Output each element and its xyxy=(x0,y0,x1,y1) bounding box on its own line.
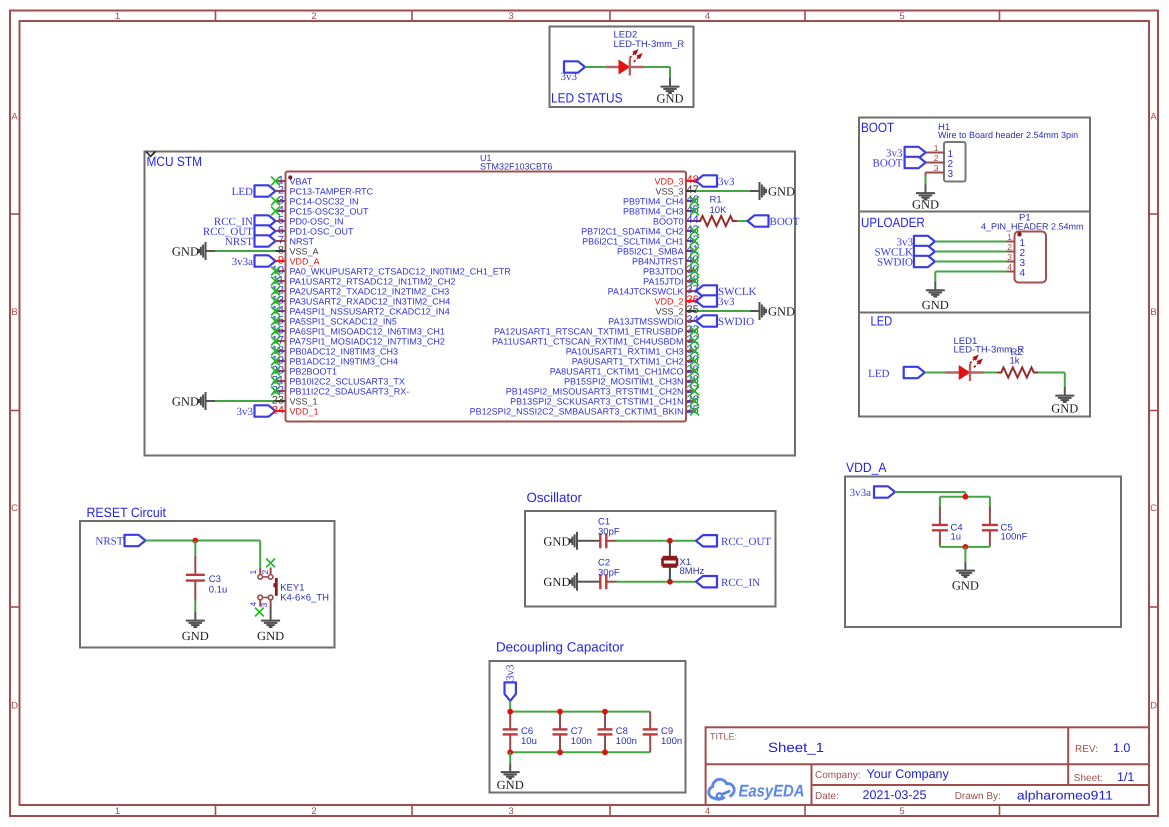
svg-text:RCC_IN: RCC_IN xyxy=(721,577,760,589)
svg-text:PC15-OSC32_OUT: PC15-OSC32_OUT xyxy=(290,206,370,216)
svg-text:PB1ADC12_IN9TIM3_CH4: PB1ADC12_IN9TIM3_CH4 xyxy=(290,356,399,366)
svg-text:PA6SPI1_MISOADC12_IN6TIM3_CH1: PA6SPI1_MISOADC12_IN6TIM3_CH1 xyxy=(290,326,445,336)
svg-text:B: B xyxy=(11,307,17,318)
U1 pin 29 PA8USART1_CKTIM1_CH1MCO xyxy=(550,364,699,376)
net flag LED (pin 2) xyxy=(232,185,276,198)
net flag 3v3 (decoupling) xyxy=(505,664,517,701)
label P1 refdes xyxy=(981,213,1084,232)
net flag LED (LED block) xyxy=(868,367,925,380)
U1 pin 42 PB6I2C1_SCLTIM4_CH1 xyxy=(582,234,699,246)
U1 pin 10 PA0_WKUPUSART2_CTSADC12_IN0TIM2_CH1_ETR xyxy=(271,265,511,277)
U1 pin 38 PA15JTDI xyxy=(643,274,699,286)
svg-text:D: D xyxy=(1150,701,1157,712)
U1 pin 39 PB3JTDO xyxy=(643,264,699,276)
net flag 3v3 (pin 24) xyxy=(237,405,276,418)
svg-text:GND: GND xyxy=(497,778,524,792)
svg-text:SWDIO: SWDIO xyxy=(718,316,754,328)
title block REV xyxy=(1075,741,1130,755)
svg-text:LED: LED xyxy=(868,368,889,380)
wire SWDIO to P1 xyxy=(935,261,1007,263)
resistor R1 xyxy=(696,195,737,227)
ground GND (LED block) xyxy=(1051,387,1078,416)
LED STATUS section box xyxy=(550,27,694,108)
wire VSS_2 to ground xyxy=(696,310,750,312)
chip U1 pin1 dot xyxy=(288,175,292,179)
U1 pin 12 PA2USART2_TXADC12_IN2TIM2_CH3 xyxy=(271,285,449,297)
svg-text:10u: 10u xyxy=(521,736,537,747)
svg-text:5: 5 xyxy=(899,806,904,817)
wire top rail VDD_A xyxy=(940,496,990,498)
net flag 3v3a (pin 9) xyxy=(232,255,276,267)
U1 pin 15 PA5SPI1_SCKADC12_IN5 xyxy=(271,315,397,327)
MCU STM corner marker xyxy=(146,152,156,157)
title block Date xyxy=(815,788,1113,803)
H1 pin 2 xyxy=(926,153,954,170)
wire VSS_A to ground xyxy=(215,250,276,252)
svg-text:PB14SPI2_MISOUSART3_RTSTIM1_CH: PB14SPI2_MISOUSART3_RTSTIM1_CH2N xyxy=(506,386,684,396)
junction (decoupling top) xyxy=(507,709,513,715)
svg-text:LED STATUS: LED STATUS xyxy=(551,91,623,106)
U1 pin 17 PA7SPI1_MOSIADC12_IN7TIM3_CH2 xyxy=(271,335,445,347)
svg-text:4: 4 xyxy=(1020,268,1026,279)
svg-text:R1: R1 xyxy=(710,195,722,206)
resistor R2 xyxy=(997,368,1038,378)
svg-text:alpharomeo911: alpharomeo911 xyxy=(1017,789,1113,803)
svg-text:1: 1 xyxy=(248,570,258,575)
title block outline xyxy=(706,727,1149,805)
svg-text:VSS_1: VSS_1 xyxy=(290,396,318,406)
frame column labels xyxy=(115,11,905,817)
U1 pin 36 VDD_2 xyxy=(654,294,698,306)
svg-text:PA9USART1_TXTIM1_CH2: PA9USART1_TXTIM1_CH2 xyxy=(572,356,684,366)
P1 pin 1 xyxy=(1007,232,1026,249)
U1 pin 45 PB8TIM4_CH3 xyxy=(623,204,699,216)
net flag NRST (RESET) xyxy=(95,535,145,548)
U1 pin 19 PB1ADC12_IN9TIM3_CH4 xyxy=(271,355,398,367)
chip U1 outline xyxy=(286,172,687,422)
svg-text:PB11I2C2_SDAUSART3_RX-: PB11I2C2_SDAUSART3_RX- xyxy=(290,386,410,396)
svg-text:GND: GND xyxy=(768,305,795,319)
label R2 refdes/value xyxy=(1010,347,1023,367)
BOOT section box xyxy=(859,118,1090,212)
svg-text:PB12SPI2_NSSI2C2_SMBAUSART3_CK: PB12SPI2_NSSI2C2_SMBAUSART3_CKTIM1_BKIN xyxy=(470,406,684,416)
title block Company xyxy=(815,767,949,781)
net flag 3v3 (pin 48) xyxy=(696,175,735,188)
svg-text:B: B xyxy=(1150,307,1156,318)
junction (NRST node) xyxy=(192,538,198,544)
UPLOADER section box xyxy=(859,212,1090,313)
net flag BOOT (H1 pin2) xyxy=(873,157,926,170)
net flag RCC_IN xyxy=(696,576,760,589)
U1 pin 26 PB13SPI2_SCKUSART3_CTSTIM1_CH1N xyxy=(510,394,699,406)
net flag NRST (pin 7) xyxy=(225,235,276,248)
title block TITLE xyxy=(710,731,824,755)
svg-text:NRST: NRST xyxy=(95,535,123,547)
svg-text:BOOT0: BOOT0 xyxy=(653,216,684,226)
svg-text:3: 3 xyxy=(1007,252,1012,262)
svg-text:VBAT: VBAT xyxy=(290,176,313,186)
svg-text:SWDIO: SWDIO xyxy=(877,256,913,268)
svg-text:K4-6×6_TH: K4-6×6_TH xyxy=(280,593,329,604)
capacitor C3 xyxy=(186,541,228,613)
ground GND (C2) xyxy=(543,573,586,591)
svg-text:Company:: Company: xyxy=(815,770,861,781)
svg-text:GND: GND xyxy=(922,298,949,312)
U1 pin 1 VBAT xyxy=(271,175,313,187)
U1 pin 9 VDD_A xyxy=(276,255,320,267)
LED D2 symbol xyxy=(606,49,645,76)
svg-text:LED-TH-3mm_R: LED-TH-3mm_R xyxy=(614,39,685,50)
junction (XTAL top) xyxy=(667,538,673,544)
svg-text:Sheet:: Sheet: xyxy=(1074,773,1103,784)
U1 pin 37 PA14JTCKSWCLK xyxy=(608,284,699,296)
net flag SWCLK (UPLOADER) xyxy=(875,246,935,258)
svg-text:PA2USART2_TXADC12_IN2TIM2_CH3: PA2USART2_TXADC12_IN2TIM2_CH3 xyxy=(290,286,450,296)
U1 pin 3 PC14-OSC32_IN xyxy=(271,195,358,207)
capacitor C4 xyxy=(932,497,963,547)
svg-text:3v3: 3v3 xyxy=(718,296,735,308)
LED section box xyxy=(859,313,1090,417)
svg-text:PA5SPI1_SCKADC12_IN5: PA5SPI1_SCKADC12_IN5 xyxy=(290,316,397,326)
wire KEY1 pin3 to ground xyxy=(270,607,272,613)
svg-text:1u: 1u xyxy=(951,532,962,543)
U1 pin 33 PA12USART1_RTSCAN_TXTIM1_ETRUSBDP xyxy=(494,324,699,336)
svg-text:3: 3 xyxy=(259,603,269,608)
svg-text:PB0ADC12_IN8TIM3_CH3: PB0ADC12_IN8TIM3_CH3 xyxy=(290,346,399,356)
svg-text:D: D xyxy=(11,701,18,712)
P1 pin 2 xyxy=(1007,242,1026,259)
svg-text:VSS_A: VSS_A xyxy=(290,246,319,256)
no-connect X KEY1 pin2 xyxy=(266,559,275,568)
svg-text:1/1: 1/1 xyxy=(1117,770,1134,784)
junction (VDD_A top) xyxy=(963,494,969,500)
svg-text:Your Company: Your Company xyxy=(867,767,950,781)
no-connect X KEY1 pin4 xyxy=(255,608,264,617)
RESET Circuit section box xyxy=(80,521,335,648)
junction (decoupling bottom) xyxy=(602,749,608,755)
svg-text:PD1-OSC_OUT: PD1-OSC_OUT xyxy=(290,226,355,236)
svg-text:100n: 100n xyxy=(661,736,682,747)
svg-text:3: 3 xyxy=(934,163,939,173)
junction (decoupling top) xyxy=(557,709,563,715)
U1 pin 43 PB7I2C1_SDATIM4_CH2 xyxy=(581,224,699,236)
svg-text:PA11USART1_CTSCAN_RXTIM1_CH4US: PA11USART1_CTSCAN_RXTIM1_CH4USBDM xyxy=(492,336,684,346)
ground GND (VDD_A) xyxy=(952,562,979,593)
svg-text:4: 4 xyxy=(1007,262,1012,272)
svg-text:PA7SPI1_MOSIADC12_IN7TIM3_CH2: PA7SPI1_MOSIADC12_IN7TIM3_CH2 xyxy=(290,336,445,346)
svg-text:4: 4 xyxy=(705,11,710,22)
svg-text:8MHz: 8MHz xyxy=(680,566,705,577)
ground GND (C3) xyxy=(182,612,209,643)
net flag SWDIO (pin 34) xyxy=(696,315,754,328)
svg-text:3v3a: 3v3a xyxy=(850,487,872,499)
svg-text:1.0: 1.0 xyxy=(1113,741,1130,755)
svg-text:VDD_A: VDD_A xyxy=(846,460,886,475)
svg-text:BOOT: BOOT xyxy=(770,216,800,228)
U1 pin 6 PD1-OSC_OUT xyxy=(276,225,355,237)
svg-text:PA10USART1_RXTIM1_CH3: PA10USART1_RXTIM1_CH3 xyxy=(566,346,684,356)
svg-text:REV:: REV: xyxy=(1075,744,1098,755)
svg-text:30pF: 30pF xyxy=(598,527,620,538)
U1 pin 24 VDD_1 xyxy=(272,405,319,417)
U1 pin 32 PA11USART1_CTSCAN_RXTIM1_CH4USBDM xyxy=(492,334,699,346)
U1 pin 20 PB2BOOT1 xyxy=(271,365,337,377)
EasyEDA logo xyxy=(709,779,734,799)
svg-text:VDD_A: VDD_A xyxy=(290,256,320,266)
svg-text:3: 3 xyxy=(508,11,513,22)
net flag RCC_OUT xyxy=(696,535,771,548)
wire P1 pin4 to ground xyxy=(935,272,1006,282)
svg-text:VSS_2: VSS_2 xyxy=(655,306,683,316)
net flag 3v3 (H1 pin1) xyxy=(886,147,926,160)
svg-text:PB8TIM4_CH3: PB8TIM4_CH3 xyxy=(623,206,684,216)
svg-text:PB3JTDO: PB3JTDO xyxy=(643,266,684,276)
svg-text:3v3: 3v3 xyxy=(505,664,517,681)
svg-text:PA1USART2_RTSADC12_IN1TIM2_CH2: PA1USART2_RTSADC12_IN1TIM2_CH2 xyxy=(290,276,456,286)
U1 pin 7 NRST xyxy=(276,235,315,247)
H1 pin 3 xyxy=(926,163,954,180)
svg-text:LED: LED xyxy=(871,314,893,329)
svg-text:Date:: Date: xyxy=(815,791,839,802)
label H1 refdes xyxy=(938,122,1078,140)
svg-text:A: A xyxy=(11,112,18,123)
capacitor C1 xyxy=(586,517,620,549)
wire H1 pin3 to ground xyxy=(925,173,927,185)
svg-text:UPLOADER: UPLOADER xyxy=(861,215,925,230)
svg-text:0.1u: 0.1u xyxy=(209,585,228,596)
P1 pin 3 xyxy=(1007,252,1026,269)
header P1 pin1 dot xyxy=(1017,232,1021,236)
wire 3v3 flag to rail xyxy=(509,701,511,712)
U1 pin 13 PA3USART2_RXADC12_IN3TIM2_CH4 xyxy=(271,295,450,307)
U1 pin 25 PB12SPI2_NSSI2C2_SMBAUSART3_CKTIM1_BKIN xyxy=(470,404,699,416)
wire C2 to RCC_IN xyxy=(616,581,696,583)
svg-text:2021-03-25: 2021-03-25 xyxy=(863,788,927,802)
svg-text:10K: 10K xyxy=(710,205,728,216)
net flag BOOT (pin 44) xyxy=(748,215,800,228)
svg-text:PA0_WKUPUSART2_CTSADC12_IN0TIM: PA0_WKUPUSART2_CTSADC12_IN0TIM2_CH1_ETR xyxy=(290,266,512,276)
wire R1 to BOOT flag xyxy=(737,220,748,222)
U1 pin 22 PB11I2C2_SDAUSART3_RX- xyxy=(271,385,409,397)
svg-text:GND: GND xyxy=(172,245,199,259)
svg-text:LED: LED xyxy=(232,186,253,198)
svg-text:A: A xyxy=(1150,112,1157,123)
svg-text:BOOT: BOOT xyxy=(873,157,903,169)
svg-text:NRST: NRST xyxy=(290,236,315,246)
Oscillator section box xyxy=(525,511,776,607)
P1 pin 4 xyxy=(1007,262,1026,279)
svg-text:VDD_2: VDD_2 xyxy=(654,296,683,306)
wire to ground VDD_A xyxy=(964,547,966,562)
svg-text:PB4NJTRST: PB4NJTRST xyxy=(632,256,684,266)
U1 pin 44 BOOT0 xyxy=(653,214,699,226)
svg-text:GND: GND xyxy=(182,629,209,643)
ground GND (C1) xyxy=(543,532,586,550)
svg-text:Wire to Board header 2.54mm 3p: Wire to Board header 2.54mm 3pin xyxy=(938,130,1078,140)
svg-text:VDD_3: VDD_3 xyxy=(654,176,683,186)
capacitor C9 xyxy=(643,712,682,753)
svg-text:GND: GND xyxy=(1051,402,1078,416)
svg-text:1: 1 xyxy=(934,143,939,153)
svg-text:PA15JTDI: PA15JTDI xyxy=(643,276,683,286)
U1 pin 21 PB10I2C2_SCLUSART3_TX xyxy=(271,375,405,387)
svg-text:PB15SPI2_MOSITIM1_CH3N: PB15SPI2_MOSITIM1_CH3N xyxy=(564,376,684,386)
net flag RCC_IN (pin 5) xyxy=(214,215,276,228)
net flag SWDIO (UPLOADER) xyxy=(877,256,935,268)
svg-text:3v3a: 3v3a xyxy=(232,256,254,268)
U1 pin 47 VSS_3 xyxy=(655,184,698,196)
svg-text:GND: GND xyxy=(543,534,570,548)
frame row labels xyxy=(11,112,1157,712)
svg-text:100n: 100n xyxy=(571,736,592,747)
crystal X1 xyxy=(663,541,705,582)
U1 pin 35 VSS_2 xyxy=(655,304,698,316)
header H1 outline xyxy=(944,142,966,182)
label U1 refdes xyxy=(480,153,553,172)
capacitor C8 xyxy=(598,712,637,753)
wire R2 to ground xyxy=(1038,373,1065,388)
ground GND (UPLOADER) xyxy=(922,282,949,312)
svg-text:PA12USART1_RTSCAN_TXTIM1_ETRUS: PA12USART1_RTSCAN_TXTIM1_ETRUSBDP xyxy=(494,326,684,336)
svg-text:TITLE:: TITLE: xyxy=(710,731,737,741)
label LED2 refdes/value xyxy=(614,30,685,51)
U1 pin 2 PC13-TAMPER-RTC xyxy=(276,185,374,197)
svg-text:BOOT: BOOT xyxy=(861,120,894,135)
U1 pin 11 PA1USART2_RTSADC12_IN1TIM2_CH2 xyxy=(271,275,455,287)
wire C1 to RCC_OUT xyxy=(616,540,696,542)
svg-text:PB10I2C2_SCLUSART3_TX: PB10I2C2_SCLUSART3_TX xyxy=(290,376,405,386)
Decoupling Capacitor section box xyxy=(490,661,686,793)
svg-text:1: 1 xyxy=(115,11,120,22)
header P1 outline xyxy=(1015,232,1047,283)
U1 pin 27 PB14SPI2_MISOUSART3_RTSTIM1_CH2N xyxy=(506,384,699,396)
svg-text:PD0-OSC_IN: PD0-OSC_IN xyxy=(290,216,344,226)
svg-text:GND: GND xyxy=(543,575,570,589)
U1 pin 28 PB15SPI2_MOSITIM1_CH3N xyxy=(564,374,699,386)
svg-text:VDD_1: VDD_1 xyxy=(290,406,319,416)
U1 pin 8 VSS_A xyxy=(276,245,319,257)
U1 pin 31 PA10USART1_RXTIM1_CH3 xyxy=(566,344,699,356)
wire LED flag to LED1 xyxy=(925,372,946,374)
MCU STM section box xyxy=(145,152,796,456)
svg-text:2: 2 xyxy=(1007,242,1012,252)
net flag 3v3 (UPLOADER) xyxy=(897,236,935,249)
svg-text:2: 2 xyxy=(311,11,316,22)
svg-text:30pF: 30pF xyxy=(598,568,620,579)
net flag 3v3a (VDD_A) xyxy=(850,486,895,499)
svg-text:PB9TIM4_CH4: PB9TIM4_CH4 xyxy=(623,196,684,206)
junction (VDD_A bottom) xyxy=(963,544,969,550)
svg-text:PB6I2C1_SCLTIM4_CH1: PB6I2C1_SCLTIM4_CH1 xyxy=(582,236,683,246)
svg-text:Sheet_1: Sheet_1 xyxy=(768,740,824,755)
U1 pin 4 PC15-OSC32_OUT xyxy=(271,205,369,217)
net flag 3v3 (pin 36) xyxy=(696,295,735,308)
pushbutton KEY1 xyxy=(248,568,329,608)
svg-text:PA4SPI1_NSSUSART2_CKADC12_IN4: PA4SPI1_NSSUSART2_CKADC12_IN4 xyxy=(290,306,450,316)
ground GND (VSS_A pin 8) xyxy=(172,242,215,260)
svg-text:GND: GND xyxy=(656,92,683,106)
svg-text:4_PIN_HEADER 2.54mm: 4_PIN_HEADER 2.54mm xyxy=(981,221,1084,231)
svg-text:PB13SPI2_SCKUSART3_CTSTIM1_CH1: PB13SPI2_SCKUSART3_CTSTIM1_CH1N xyxy=(510,396,683,406)
wire 3v3a to cap rail xyxy=(895,492,965,497)
svg-text:GND: GND xyxy=(912,198,939,212)
wire NRST to KEY1 xyxy=(146,541,261,569)
U1 pin 46 PB9TIM4_CH4 xyxy=(623,194,699,206)
svg-text:5: 5 xyxy=(899,11,904,22)
junction (decoupling bottom) xyxy=(507,749,513,755)
svg-text:PB5I2C1_SMBA: PB5I2C1_SMBA xyxy=(617,246,684,256)
svg-text:1: 1 xyxy=(115,806,120,817)
svg-text:PA3USART2_RXADC12_IN3TIM2_CH4: PA3USART2_RXADC12_IN3TIM2_CH4 xyxy=(290,296,451,306)
svg-text:VSS_3: VSS_3 xyxy=(655,186,683,196)
VDD_A section box xyxy=(845,477,1121,628)
U1 pin 41 PB5I2C1_SMBA xyxy=(617,244,699,256)
svg-text:GND: GND xyxy=(768,185,795,199)
svg-text:MCU STM: MCU STM xyxy=(147,154,203,169)
U1 pin 48 VDD_3 xyxy=(654,174,698,186)
U1 pin 34 PA13JTMSSWDIO xyxy=(608,314,699,326)
svg-text:C3: C3 xyxy=(209,574,221,585)
svg-text:PC14-OSC32_IN: PC14-OSC32_IN xyxy=(290,196,359,206)
U1 pin 18 PB0ADC12_IN8TIM3_CH3 xyxy=(271,345,398,357)
svg-text:3: 3 xyxy=(508,806,513,817)
junction (decoupling top) xyxy=(602,709,608,715)
wire bottom rail VDD_A xyxy=(940,546,990,548)
svg-text:2: 2 xyxy=(934,153,939,163)
svg-text:Decoupling Capacitor: Decoupling Capacitor xyxy=(496,640,624,655)
svg-text:3: 3 xyxy=(948,169,954,180)
ground GND (KEY1) xyxy=(257,612,284,643)
svg-text:STM32F103CBT6: STM32F103CBT6 xyxy=(480,162,553,172)
ground GND (VSS_3 pin 47) xyxy=(750,182,795,200)
svg-text:C: C xyxy=(1150,503,1157,514)
ground GND (LED STATUS) xyxy=(656,78,683,106)
svg-text:PA13JTMSSWDIO: PA13JTMSSWDIO xyxy=(608,316,683,326)
svg-text:1k: 1k xyxy=(1010,356,1020,367)
U1 pin 16 PA6SPI1_MISOADC12_IN6TIM3_CH1 xyxy=(271,325,445,337)
ground GND (VSS_2 pin 35) xyxy=(750,302,795,320)
svg-text:3v3: 3v3 xyxy=(237,406,254,418)
svg-text:100nF: 100nF xyxy=(1001,532,1028,543)
svg-text:4: 4 xyxy=(248,602,258,607)
capacitor C2 xyxy=(586,558,620,590)
label LED1 refdes/value xyxy=(954,336,1025,356)
junction (XTAL bottom) xyxy=(667,579,673,585)
wire VSS_1 to ground xyxy=(215,400,276,402)
svg-text:Drawn By:: Drawn By: xyxy=(955,791,1001,802)
svg-text:PA8USART1_CKTIM1_CH1MCO: PA8USART1_CKTIM1_CH1MCO xyxy=(550,366,684,376)
wire decoupling to ground xyxy=(509,752,511,763)
svg-text:3v3: 3v3 xyxy=(718,176,735,188)
svg-text:RCC_OUT: RCC_OUT xyxy=(721,536,771,548)
wire VSS_3 to ground xyxy=(696,190,750,192)
svg-text:RESET Circuit: RESET Circuit xyxy=(87,505,167,520)
svg-text:GND: GND xyxy=(257,629,284,643)
U1 pin 40 PB4NJTRST xyxy=(632,254,699,266)
capacitor C6 xyxy=(503,712,537,753)
capacitor C7 xyxy=(553,712,592,753)
svg-text:1: 1 xyxy=(1007,232,1012,242)
U1 pin 30 PA9USART1_TXTIM1_CH2 xyxy=(572,354,699,366)
net flag SWCLK (pin 37) xyxy=(696,285,757,298)
wire bottom rail decoupling xyxy=(510,751,650,753)
capacitor C5 xyxy=(982,497,1028,547)
wire top rail decoupling xyxy=(510,711,650,713)
wire LED2 cathode to GND xyxy=(644,67,670,78)
svg-text:100n: 100n xyxy=(616,736,637,747)
svg-text:GND: GND xyxy=(172,395,199,409)
ground GND (VSS_1 pin 23) xyxy=(172,392,215,410)
